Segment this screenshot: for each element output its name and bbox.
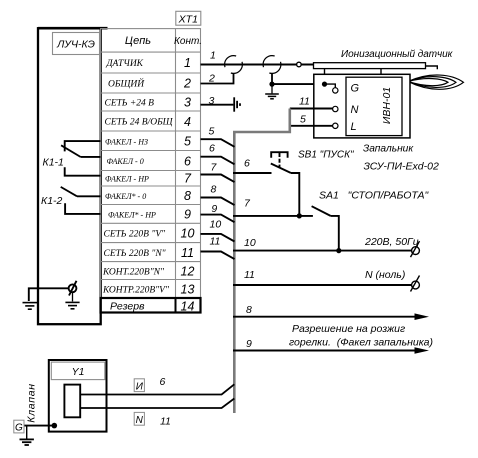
wire SB1 output down [291,173,299,216]
svg-text:N (ноль): N (ноль) [365,269,405,281]
svg-text:ФАКЕЛ* - НР: ФАКЕЛ* - НР [108,210,156,219]
wire Y1 ground [24,425,54,427]
wire shield to IVN G [272,83,325,85]
table circuit names [102,59,174,296]
wire 5 to L terminal [290,125,333,127]
wire И phase to bus [80,384,234,394]
svg-text:4: 4 [184,115,191,129]
valve Y1 label box [51,362,105,380]
cable bundle gray bus [234,109,289,414]
svg-text:8: 8 [246,304,252,316]
svg-text:ДАТЧИК: ДАТЧИК [106,59,144,69]
relay contact K1-1 blade [61,145,80,157]
chassis terminal wire bottom-left [29,288,69,301]
svg-text:И: И [136,381,144,392]
wire pin9 stub and drop to bus [201,215,235,223]
svg-text:2: 2 [183,77,191,91]
junction node SA1/wire10 [336,248,341,253]
svg-text:N: N [136,415,144,426]
flame symbol middle leaf [408,77,456,88]
svg-text:11: 11 [299,96,310,108]
svg-text:Резерв: Резерв [110,301,145,313]
svg-text:6: 6 [184,155,191,169]
svg-text:L: L [351,121,357,133]
svg-text:Клапан: Клапан [26,383,38,422]
svg-text:G: G [15,423,23,434]
terminal circle slash 220V [412,247,420,255]
connector XT1 terminal table [101,29,201,313]
svg-text:11: 11 [210,235,221,247]
cable shield circle A [225,56,243,74]
wire pin2 to shield A [201,73,234,83]
svg-text:10: 10 [210,218,222,230]
svg-text:11: 11 [160,416,171,428]
relay contact K1-1 common wire pin6 [81,156,101,158]
svg-text:ЛУЧ-КЭ: ЛУЧ-КЭ [56,39,95,51]
svg-text:КОНТР.220В"V": КОНТР.220В"V" [102,286,170,296]
svg-text:К1-1: К1-1 [43,157,64,169]
svg-text:СЕТЬ 220В "N": СЕТЬ 220В "N" [104,249,167,259]
wire shield B down [271,73,273,84]
wire pin1 to sensor [201,64,314,66]
flame symbol outer leaf [408,75,464,89]
label N box [134,412,144,425]
svg-text:3: 3 [209,95,215,107]
svg-text:ХТ1: ХТ1 [178,13,198,25]
cable shield circle B [263,56,281,74]
svg-text:К1-2: К1-2 [41,195,63,207]
enclosure box ЛУЧ-КЭ device [38,28,101,324]
label box ЛУЧ-КЭ [53,33,100,55]
svg-text:5: 5 [209,126,215,138]
svg-text:5: 5 [184,135,191,149]
wire pin6 stub and drop to bus [201,157,235,165]
svg-text:СЕТЬ +24 В: СЕТЬ +24 В [105,99,155,109]
svg-text:12: 12 [181,265,195,279]
svg-text:10: 10 [244,237,256,249]
wire pin11 stub and drop to bus [201,252,235,260]
chassis bars symbol pin3 [233,97,235,111]
svg-text:8: 8 [184,189,191,203]
svg-text:9: 9 [211,203,217,215]
terminal circle slash neutral [412,281,420,289]
svg-text:SB1 "ПУСК": SB1 "ПУСК" [298,150,354,161]
valve coil rectangle [64,385,80,418]
svg-text:13: 13 [181,283,195,297]
wire 7 to SA1 [233,215,313,217]
pushbutton SB1 actuator bracket [271,152,287,158]
wire 11 to N terminal [290,108,333,110]
junction node SB1/wire7 [297,213,302,218]
svg-text:8: 8 [211,183,217,195]
svg-text:220В, 50Гц: 220В, 50Гц [364,236,419,248]
svg-text:11: 11 [181,246,194,260]
igniter IVN-01 outer box [314,74,410,138]
svg-text:Разрешение на розжиг: Разрешение на розжиг [292,323,405,335]
svg-text:Цепь: Цепь [125,35,151,47]
junction node Y1 ground [52,423,58,429]
svg-text:6: 6 [244,158,250,170]
svg-text:ФАКЕЛ - 0: ФАКЕЛ - 0 [107,157,144,166]
svg-text:ФАКЕЛ - НР: ФАКЕЛ - НР [105,175,149,184]
ionization sensor bar [314,63,426,69]
svg-text:N: N [351,104,359,116]
svg-text:ФАКЕЛ* - 0: ФАКЕЛ* - 0 [105,192,146,201]
svg-text:9: 9 [246,338,252,350]
igniter inner box [346,77,402,135]
wire pin10 stub and drop to bus [201,234,235,242]
pushbutton SB1 blade [271,164,291,174]
valve Y1 box [49,360,107,432]
svg-text:2: 2 [208,73,215,85]
chassis terminal circle with slash [69,284,77,292]
svg-text:11: 11 [244,269,255,281]
connector XT1 label box [176,11,201,25]
svg-text:Ионизационный датчик: Ионизационный датчик [341,49,454,60]
wire 9 permission arrow [233,350,417,352]
svg-text:ЗСУ-ПИ-Exd-02: ЗСУ-ПИ-Exd-02 [364,161,439,173]
pushbutton SB1 actuator stem dashed [279,153,281,167]
connector circle node [297,62,302,67]
svg-text:G: G [351,83,360,95]
svg-text:Запальник: Запальник [363,144,414,155]
svg-text:14: 14 [181,300,195,314]
relay contact K1-2 NO wire pin9 [65,203,100,214]
svg-text:СЕТЬ 24 В/ОБЩ: СЕТЬ 24 В/ОБЩ [105,118,174,128]
svg-text:3: 3 [184,96,191,110]
wire 6 to SB1 [233,172,272,174]
svg-text:горелки. (Факел запальника): горелки. (Факел запальника) [289,337,433,349]
sensor support leg right [380,69,382,75]
sensor electrode tip [426,66,438,69]
flame symbol inner leaf [408,79,448,86]
earth ground under G [26,426,28,439]
sensor support leg left [324,69,326,85]
table pin numbers [181,56,195,314]
svg-text:Конт.: Конт. [174,36,202,47]
terminal N circle [333,106,338,111]
svg-text:ИВН-01: ИВН-01 [381,87,393,124]
terminal L circle [333,123,338,128]
svg-text:1: 1 [210,50,216,62]
svg-text:5: 5 [300,114,306,126]
relay contact K1-1 NC wire pin5 [65,141,101,151]
frame ground G box [14,420,24,433]
wire pin7 stub and drop to bus [201,175,235,183]
reserve row 14 emphasized box [101,298,201,313]
wire pin3 stub [201,104,234,106]
wire 11 neutral [233,284,412,286]
wire pin8 stub and drop to bus [201,198,235,206]
svg-text:КОНТ.220В"N": КОНТ.220В"N" [102,268,165,278]
earth ground left outside [23,303,38,310]
svg-text:6: 6 [160,376,166,388]
relay contact K1-2 blade [61,187,77,196]
terminal G circle [333,88,338,93]
wire hook to G terminal [325,84,336,88]
svg-text:SA1 "СТОП/РАБОТА": SA1 "СТОП/РАБОТА" [319,190,429,202]
svg-text:1: 1 [184,56,191,70]
earth ground under shield node [271,84,273,93]
wire N neutral to bus [80,399,234,409]
svg-text:9: 9 [184,208,191,222]
svg-text:СЕТЬ 220В "V": СЕТЬ 220В "V" [104,230,167,240]
svg-text:7: 7 [184,172,192,186]
wire pin5 stub and drop to bus [201,139,235,147]
wire 10 220V [233,250,412,252]
svg-text:6: 6 [209,143,215,155]
earth ground under chassis terminal [72,292,74,301]
svg-text:10: 10 [181,227,195,241]
switch SA1 blade [312,206,331,216]
svg-text:ОБЩИЙ: ОБЩИЙ [108,78,145,90]
svg-text:ФАКЕЛ - НЗ: ФАКЕЛ - НЗ [105,137,148,146]
relay contact K1-2 common wire pin8 [77,195,101,197]
wire 8 permission arrow [233,316,417,318]
junction node G wire [322,82,327,87]
wire SA1 output down [331,216,339,251]
junction shield ground node [269,82,274,87]
relay contact K1-1 NO wire pin7 [65,167,101,176]
label И box [134,379,144,392]
svg-text:Y1: Y1 [72,366,85,378]
